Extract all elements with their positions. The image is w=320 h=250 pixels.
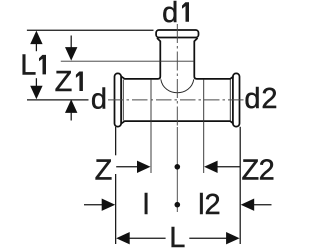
- tee fitting: branch top bead: [156, 30, 198, 38]
- dimension Z1: down arrowhead (to stop line): [65, 47, 77, 61]
- dimension L1: up arrowhead: [30, 31, 42, 44]
- dimension Z1: lower tail: [70, 112, 72, 121]
- extension line: run centerline level left (L1/Z1 reference): [27, 99, 89, 101]
- dimension l: tail line: [84, 204, 103, 206]
- extension line below pipe: right end: [239, 127, 241, 244]
- svg-text:l2: l2: [198, 189, 221, 221]
- left socket tangent line: [122, 80, 124, 121]
- vertical centerline extension below pipe (solid): [176, 127, 178, 212]
- extension line below pipe: left end (upper part): [115, 127, 117, 156]
- svg-text:d2: d2: [244, 83, 278, 115]
- right socket tangent line: [229, 80, 231, 121]
- svg-text:L: L: [169, 222, 185, 250]
- dimension Z1: up arrowhead (to centerline): [65, 99, 77, 113]
- run pipe body bottom outline: [121, 121, 233, 124]
- dimension Z: tail line: [116, 166, 138, 168]
- dimension l2: tail line: [253, 204, 271, 206]
- dimension L: right line segment: [189, 237, 227, 239]
- dimension Z: right-pointing arrowhead: [137, 161, 151, 173]
- svg-text:L: L: [20, 50, 36, 82]
- dimension Z1: label digit 1: [76, 72, 83, 92]
- dimension Z1: upper tail: [70, 36, 72, 49]
- horizontal centerline of run (dash-dot): [108, 99, 248, 101]
- dimension L: right arrowhead: [226, 232, 240, 244]
- extension line: top of branch (L1 reference): [27, 29, 154, 31]
- dimension l2: left-pointing arrowhead: [241, 199, 255, 211]
- extension line below pipe: left end (lower part): [115, 174, 117, 244]
- svg-text:Z: Z: [95, 154, 113, 186]
- right socket stop line + extension below: [203, 79, 205, 173]
- svg-text:Z2: Z2: [242, 155, 275, 187]
- dimension L: left arrowhead: [116, 232, 130, 244]
- node dot: centerline at Z row: [175, 164, 181, 170]
- dimension Z2: tail line: [217, 166, 241, 168]
- dimension l: right-pointing arrowhead: [102, 199, 116, 211]
- run pipe body top-right outline with branch right wall: [194, 38, 233, 79]
- dimension Z2: left-pointing arrowhead: [204, 161, 218, 173]
- dimension L1: label digit 1: [39, 55, 46, 75]
- svg-text:l: l: [143, 189, 149, 221]
- label d1 digit: [182, 2, 189, 22]
- dimension L1: lower line segment: [35, 78, 37, 86]
- run pipe body top-left outline with branch left wall: [121, 38, 160, 79]
- svg-text:d: d: [91, 83, 107, 115]
- saddle arc at branch junction: [161, 79, 194, 92]
- dimension L1: upper line segment: [35, 43, 37, 51]
- dimension L1: down arrowhead: [30, 86, 42, 100]
- dimension L: left line segment: [129, 237, 166, 239]
- branch socket stop line + left extension (Z1 reference): [61, 60, 195, 62]
- svg-text:Z: Z: [55, 66, 73, 98]
- tee fitting: run pipe left bead: [115, 73, 122, 126]
- vertical centerline of branch (dash-dot): [176, 24, 178, 127]
- tee fitting: run pipe right bead: [233, 73, 240, 126]
- left socket stop line + extension below: [150, 79, 152, 173]
- node dot: centerline at l row: [175, 202, 181, 208]
- svg-text:d: d: [162, 0, 178, 29]
